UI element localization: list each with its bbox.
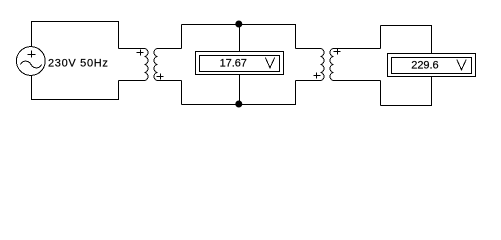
svg-text:230V 50Hz: 230V 50Hz (48, 58, 109, 70)
voltmeter U2 outer box (388, 54, 476, 77)
voltmeter U1 inner box (200, 56, 280, 72)
wire left loop right upper (118, 22, 120, 49)
wire middle loop left upper (181, 25, 183, 49)
wire T1 primary top terminal (119, 48, 145, 50)
voltmeter U2 inner box (392, 58, 472, 74)
wire T1 secondary top terminal (158, 48, 182, 50)
wire T2 secondary top terminal (334, 48, 381, 50)
transformer T1 primary plus mark (137, 50, 144, 56)
AC source V1 circle (16, 47, 45, 76)
wire middle top rail (182, 24, 297, 26)
transformer T1 primary coil (145, 49, 149, 81)
wire right loop left upper (380, 26, 382, 49)
voltmeter U1 unit V glyph (265, 57, 275, 68)
wire middle loop right upper (295, 25, 297, 49)
wire middle loop left lower (181, 81, 183, 105)
junction dot bottom (node B) (235, 101, 242, 108)
svg-text:229.6: 229.6 (411, 60, 438, 72)
wire voltmeter U2 top lead (431, 26, 433, 54)
junction dot top (node A) (235, 21, 242, 28)
wire T2 secondary bottom terminal (334, 80, 381, 82)
wire middle loop right lower (295, 81, 297, 105)
wire right top rail (381, 25, 433, 27)
transformer T2 secondary plus mark (334, 49, 341, 55)
wire middle bottom rail (182, 104, 297, 106)
transformer T2 secondary coil (330, 49, 333, 81)
transformer T2 primary plus mark (314, 73, 321, 79)
wire T2 primary top terminal (296, 48, 321, 50)
wire left loop left above source (31, 22, 33, 48)
wire right bottom rail (381, 105, 433, 107)
wire voltmeter U1 bottom lead (239, 75, 241, 105)
wire T1 secondary bottom terminal (158, 80, 182, 82)
voltmeter U2 unit V glyph (457, 59, 467, 70)
wire voltmeter U2 bottom lead (431, 77, 433, 106)
AC source V1 plus polarity mark (28, 51, 36, 58)
wire left loop top (31, 21, 119, 23)
AC source V1 sine wave (21, 61, 42, 68)
transformer T1 secondary coil (154, 49, 157, 81)
wire voltmeter U1 top lead (239, 25, 241, 52)
wire left loop left below source (31, 76, 33, 100)
wire left loop bottom (31, 99, 119, 101)
transformer T2 primary coil (321, 49, 325, 81)
wire right loop left lower (380, 81, 382, 106)
wire left loop right lower (118, 81, 120, 100)
wire T2 primary bottom terminal (296, 80, 321, 82)
wire T1 primary bottom terminal (119, 80, 145, 82)
transformer T1 secondary plus mark (157, 74, 164, 80)
svg-text:17.67: 17.67 (220, 58, 247, 70)
voltmeter U1 outer box (196, 52, 284, 75)
